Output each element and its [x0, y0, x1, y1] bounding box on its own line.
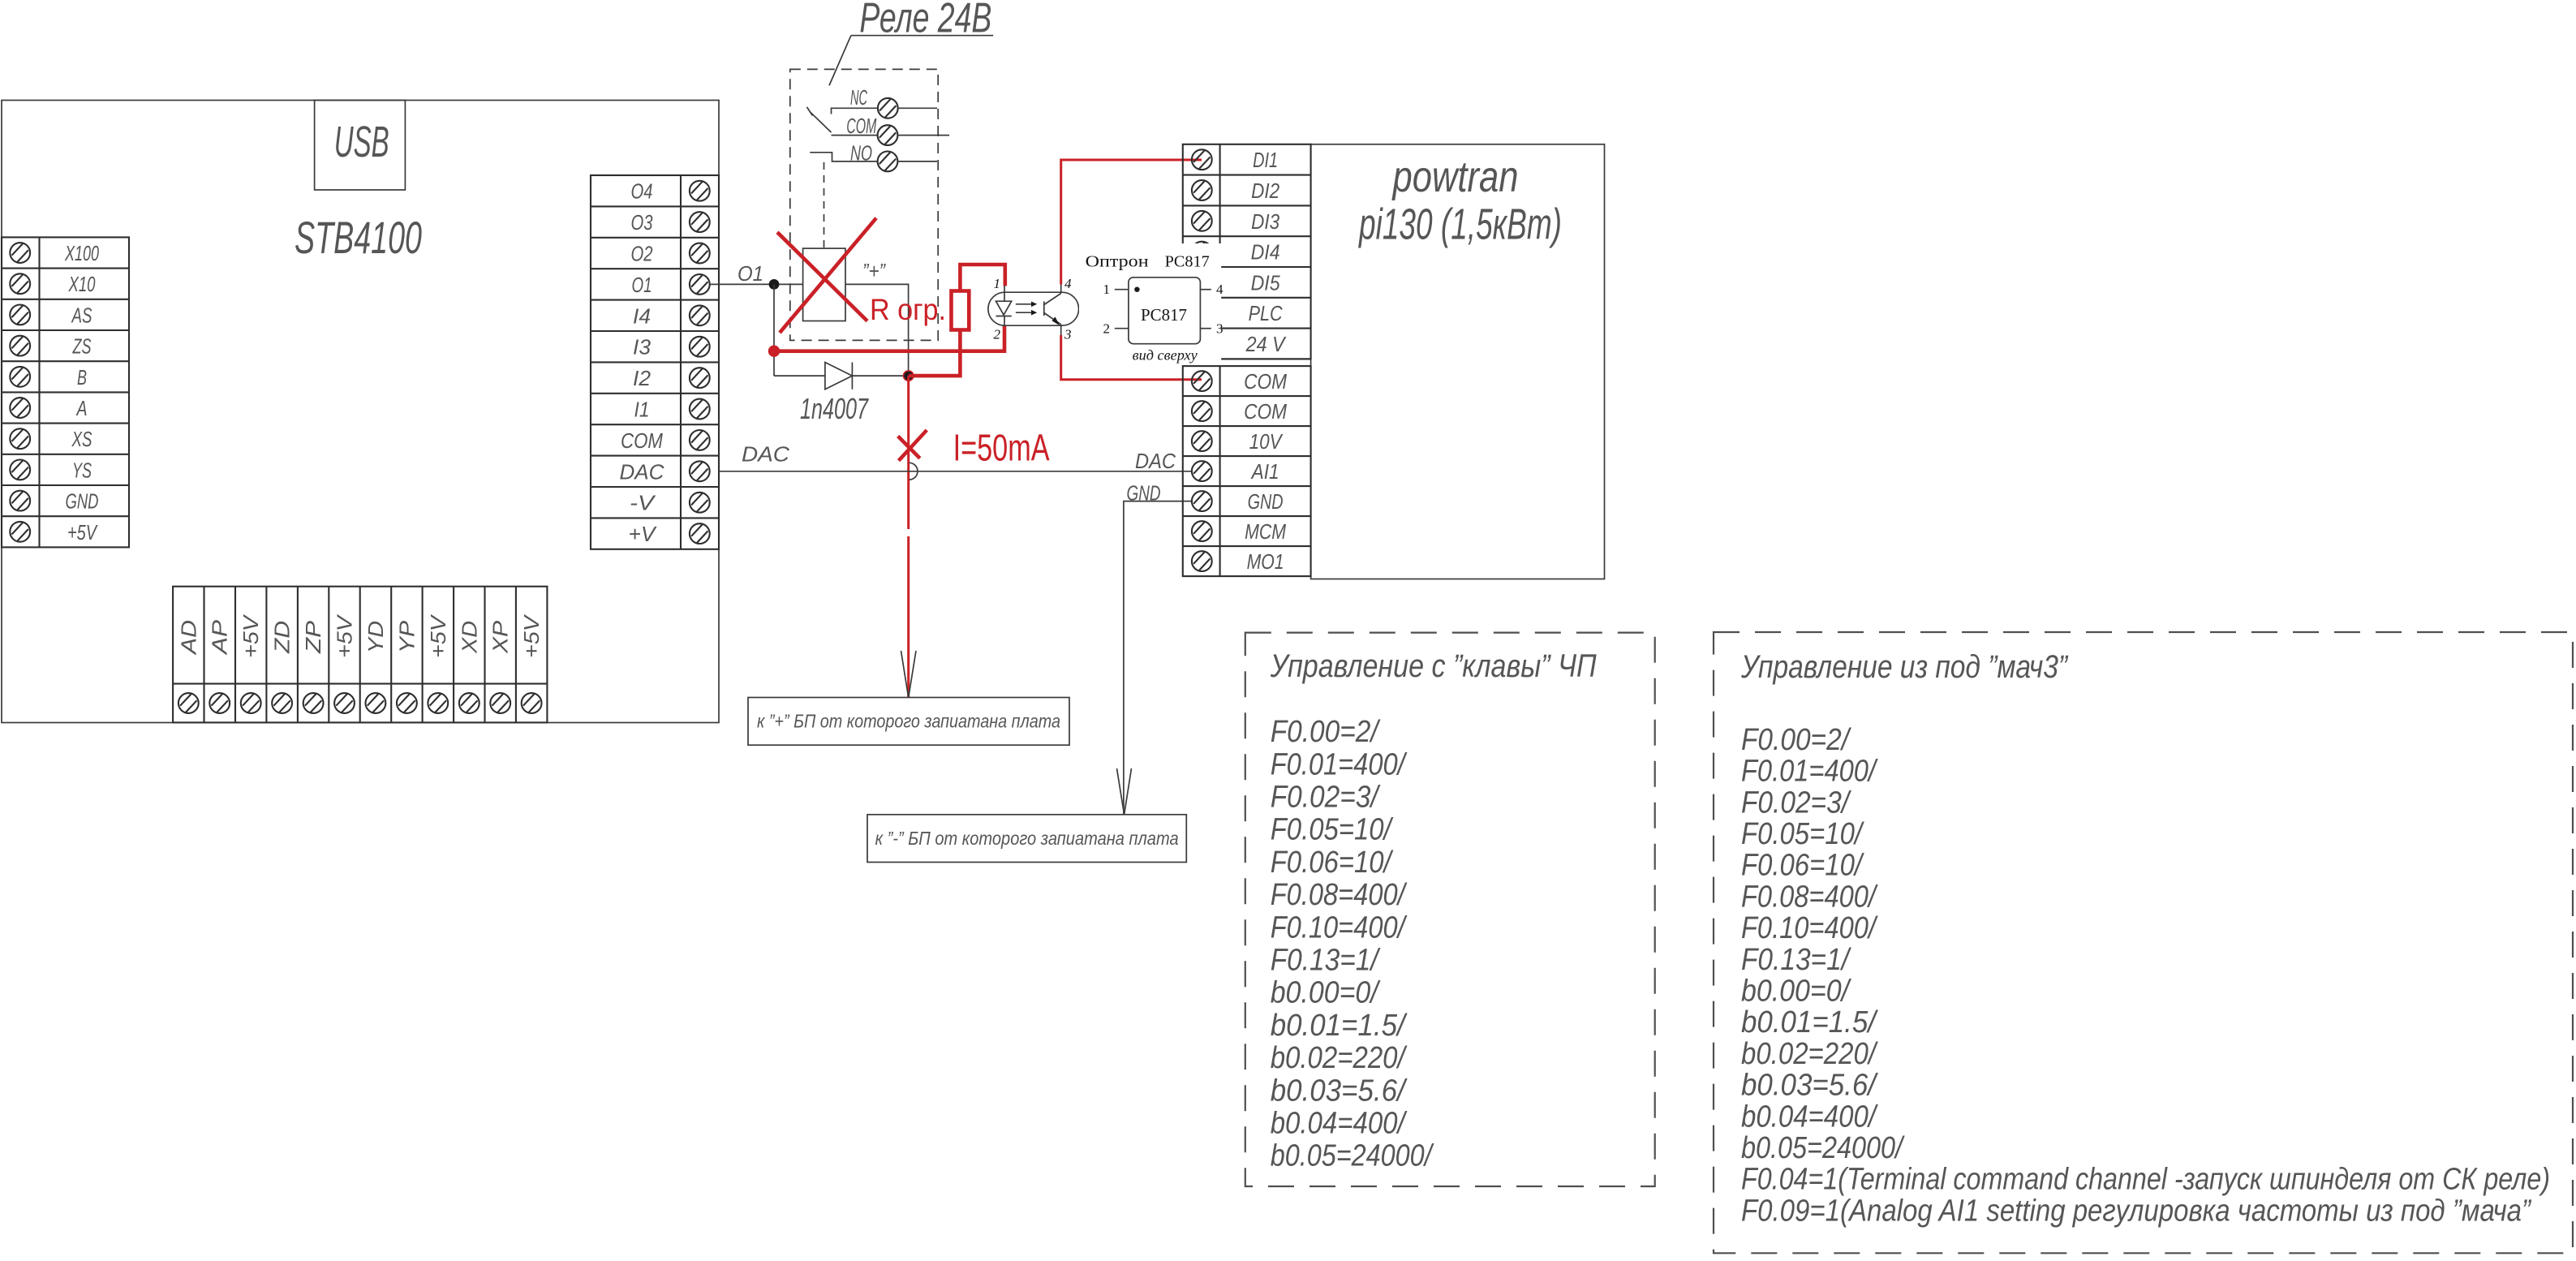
svg-text:F0.01=400/: F0.01=400/	[1271, 747, 1408, 781]
arrow to minus supply	[1117, 768, 1132, 815]
red wire opto pin4 to DI1	[1061, 160, 1202, 285]
optocoupler PC817 symbol	[988, 276, 1079, 342]
svg-text:b0.00=0/: b0.00=0/	[1741, 975, 1851, 1009]
svg-text:F0.01=400/: F0.01=400/	[1741, 755, 1878, 789]
svg-text:F0.04=1(Terminal command chann: F0.04=1(Terminal command channel -запуск…	[1741, 1163, 2550, 1197]
svg-text:F0.00=2/: F0.00=2/	[1271, 715, 1381, 749]
svg-text:DAC: DAC	[620, 459, 664, 484]
label I=50mA	[953, 427, 1050, 469]
diode 1n4007	[774, 363, 909, 426]
svg-text:Оптрон: Оптрон	[1086, 253, 1149, 271]
svg-text:F0.05=10/: F0.05=10/	[1271, 813, 1394, 847]
svg-text:к ”-” БП от которого запиатана: к ”-” БП от которого запиатана плата	[875, 828, 1179, 849]
red wire opto pin3 to COM	[1061, 335, 1202, 380]
relay contact NC	[832, 85, 938, 118]
svg-text:F0.06=10/: F0.06=10/	[1741, 849, 1864, 883]
svg-text:b0.02=220/: b0.02=220/	[1741, 1037, 1878, 1071]
svg-text:COM: COM	[1244, 399, 1287, 424]
svg-text:DI4: DI4	[1251, 240, 1280, 265]
svg-text:1n4007: 1n4007	[800, 392, 869, 425]
wire O1 from terminal to coil	[709, 261, 803, 286]
svg-text:I3: I3	[633, 335, 652, 359]
relay contact NO	[810, 140, 937, 171]
svg-text:powtran: powtran	[1391, 153, 1519, 201]
svg-text:A: A	[75, 396, 87, 420]
svg-text:XD: XD	[457, 621, 481, 654]
svg-text:I1: I1	[634, 398, 650, 422]
red wire to power supply plus	[907, 376, 910, 697]
wire coil right to diode cathode junction	[845, 284, 909, 376]
svg-text:COM: COM	[846, 114, 876, 138]
annotation box minus supply	[867, 815, 1186, 863]
svg-text:AI1: AI1	[1250, 459, 1279, 484]
svg-text:3: 3	[1216, 321, 1223, 337]
junction node diode/resistor/output	[903, 370, 914, 381]
svg-text:+V: +V	[629, 522, 658, 546]
svg-text:DI5: DI5	[1251, 270, 1280, 295]
svg-text:b0.01=1.5/: b0.01=1.5/	[1271, 1009, 1408, 1043]
svg-text:b0.00=0/: b0.00=0/	[1271, 976, 1381, 1010]
svg-text:+5V: +5V	[333, 613, 357, 658]
svg-text:10V: 10V	[1249, 429, 1284, 454]
junction node at O1	[769, 279, 780, 290]
svg-text:F0.13=1/: F0.13=1/	[1271, 944, 1381, 978]
svg-text:F0.05=10/: F0.05=10/	[1741, 817, 1864, 851]
svg-text:”+”: ”+”	[862, 259, 886, 283]
svg-text:YD: YD	[363, 621, 388, 653]
svg-text:b0.03=5.6/: b0.03=5.6/	[1271, 1074, 1408, 1108]
svg-text:O1: O1	[632, 273, 652, 297]
red cross on wire	[898, 430, 927, 461]
wire red junction to resistor bottom	[909, 330, 961, 377]
svg-text:I=50mA: I=50mA	[953, 427, 1050, 469]
svg-text:X10: X10	[68, 272, 96, 296]
svg-text:R огр.: R огр.	[870, 293, 946, 326]
svg-text:b0.05=24000/: b0.05=24000/	[1741, 1131, 1905, 1165]
svg-text:Управление из под ”мач3”: Управление из под ”мач3”	[1740, 649, 2068, 685]
svg-text:GND: GND	[66, 489, 99, 514]
svg-text:MCM: MCM	[1245, 519, 1286, 544]
relay contact COM with moving arm	[807, 107, 950, 145]
svg-text:DI3: DI3	[1251, 209, 1279, 234]
svg-text:1: 1	[994, 276, 1001, 291]
svg-text:I4: I4	[633, 303, 651, 328]
svg-text:2: 2	[994, 327, 1001, 342]
relay coil box	[803, 248, 845, 321]
svg-text:b0.03=5.6/: b0.03=5.6/	[1741, 1069, 1878, 1103]
svg-text:AS: AS	[71, 303, 92, 327]
svg-text:+5V: +5V	[239, 613, 263, 658]
svg-text:+5V: +5V	[67, 520, 98, 544]
svg-text:F0.10=400/: F0.10=400/	[1271, 910, 1408, 945]
optocoupler top view background	[1079, 243, 1221, 364]
svg-text:ZP: ZP	[301, 620, 325, 654]
svg-text:F0.08=400/: F0.08=400/	[1741, 880, 1878, 914]
svg-text:PC817: PC817	[1141, 305, 1187, 325]
svg-text:+5V: +5V	[426, 613, 450, 658]
red junction node on O1 vertical	[768, 346, 780, 357]
svg-text:F0.06=10/: F0.06=10/	[1271, 846, 1394, 880]
powtran terminal strip upper (DI1..24V)	[1183, 144, 1311, 359]
svg-text:XP: XP	[488, 620, 513, 654]
svg-text:AD: AD	[176, 620, 200, 656]
svg-text:b0.05=24000/: b0.05=24000/	[1271, 1139, 1434, 1173]
svg-text:b0.04=400/: b0.04=400/	[1741, 1100, 1878, 1134]
red wire bus to opto pin 2	[774, 325, 1004, 351]
svg-text:F0.08=400/: F0.08=400/	[1271, 878, 1408, 912]
svg-text:O1: O1	[738, 261, 763, 286]
wire GND down to power supply minus	[1124, 481, 1192, 815]
powtran upper terminal labels	[1245, 148, 1287, 356]
parameter list box: control from mach3	[1714, 632, 2573, 1253]
svg-text:F0.09=1(Analog AI1 setting рег: F0.09=1(Analog AI1 setting регулировка ч…	[1741, 1194, 2532, 1228]
svg-text:вид сверху: вид сверху	[1133, 347, 1198, 364]
svg-text:MO1: MO1	[1247, 549, 1284, 574]
board STB4100 outline	[2, 101, 719, 723]
svg-text:YS: YS	[72, 458, 92, 482]
svg-text:к ”+” БП от которого запиатана: к ”+” БП от которого запиатана плата	[757, 711, 1060, 732]
svg-text:NC: NC	[850, 85, 867, 110]
terminal strip right (O4..+V)	[591, 175, 719, 549]
svg-text:ZS: ZS	[72, 334, 92, 359]
annotation box plus supply	[748, 698, 1069, 746]
svg-text:XS: XS	[71, 427, 92, 451]
arrow to plus supply	[901, 651, 917, 698]
relay label Rele 24V with leader	[829, 0, 993, 85]
svg-text:DAC: DAC	[742, 442, 789, 467]
svg-text:b0.01=1.5/: b0.01=1.5/	[1741, 1005, 1878, 1039]
svg-text:1: 1	[1103, 282, 1111, 297]
svg-text:2: 2	[1103, 321, 1111, 337]
USB connector	[315, 101, 406, 191]
optocoupler top view PC817	[1086, 253, 1223, 364]
wire DAC from STB4100 to AI1 with hop	[719, 442, 1192, 480]
svg-text:4: 4	[1064, 276, 1072, 291]
powtran pi130 inverter box	[1311, 144, 1605, 579]
red cross over relay coil	[777, 218, 876, 333]
svg-text:I2: I2	[633, 366, 652, 390]
svg-text:Управление с ”клавы” ЧП: Управление с ”клавы” ЧП	[1270, 648, 1598, 684]
svg-text:STB4100: STB4100	[295, 212, 422, 263]
svg-text:DI1: DI1	[1253, 148, 1278, 172]
svg-text:AP: AP	[208, 619, 232, 656]
svg-text:4: 4	[1216, 282, 1223, 297]
svg-text:F0.02=3/: F0.02=3/	[1741, 785, 1851, 820]
svg-text:GND: GND	[1248, 489, 1284, 514]
svg-text:USB: USB	[334, 118, 389, 166]
parameter list box: control from FC keypad	[1245, 633, 1655, 1186]
svg-text:F0.02=3/: F0.02=3/	[1271, 781, 1381, 815]
svg-text:COM: COM	[1244, 369, 1287, 394]
svg-text:DAC: DAC	[1135, 449, 1176, 473]
relay mechanical linkage (dashed)	[824, 162, 825, 247]
svg-text:b0.02=220/: b0.02=220/	[1271, 1041, 1408, 1075]
svg-text:B: B	[77, 365, 87, 389]
svg-text:3: 3	[1064, 327, 1072, 342]
svg-text:b0.04=400/: b0.04=400/	[1271, 1107, 1408, 1141]
svg-text:+5V: +5V	[519, 613, 544, 658]
svg-text:DI2: DI2	[1251, 179, 1279, 203]
svg-text:YP: YP	[394, 620, 419, 653]
svg-text:ZD: ZD	[270, 621, 295, 654]
board name STB4100	[295, 212, 422, 263]
svg-text:O2: O2	[631, 242, 653, 266]
svg-text:F0.00=2/: F0.00=2/	[1741, 723, 1851, 757]
svg-text:COM: COM	[621, 428, 663, 453]
svg-text:PC817: PC817	[1165, 253, 1210, 271]
terminal strip bottom (AD..+5V)	[173, 587, 547, 723]
terminal strip left (X100..+5V)	[2, 237, 129, 547]
label "+"	[862, 259, 886, 283]
relay K1 dashed enclosure	[790, 69, 938, 340]
svg-text:pi130 (1,5кВт): pi130 (1,5кВт)	[1358, 200, 1562, 248]
svg-text:O3: O3	[631, 210, 653, 235]
svg-text:F0.13=1/: F0.13=1/	[1741, 943, 1851, 977]
wire O1 junction down to diode anode	[773, 284, 775, 376]
svg-text:-V: -V	[630, 491, 656, 515]
resistor R ogr.	[870, 291, 969, 330]
svg-text:24 V: 24 V	[1245, 332, 1287, 356]
powtran terminal strip lower (COM..MO1)	[1183, 366, 1311, 576]
svg-text:PLC: PLC	[1249, 301, 1283, 325]
svg-text:O4: O4	[631, 179, 653, 204]
svg-text:X100: X100	[64, 241, 99, 265]
wire resistor top to opto pin 1	[960, 265, 1004, 291]
svg-text:F0.10=400/: F0.10=400/	[1741, 911, 1878, 945]
